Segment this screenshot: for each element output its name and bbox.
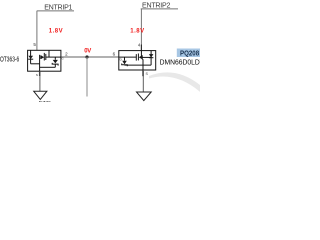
left box bottom pin stub [39, 71, 41, 76]
zener vertical bottom [54, 64, 56, 67]
zener bar [122, 64, 128, 67]
wire to left ground [39, 71, 41, 91]
drain vertical [140, 51, 142, 58]
gate wire inside [46, 56, 61, 58]
ground left [34, 91, 47, 99]
transistor Q2 right (PQ208 DMN66D0LDW) [119, 51, 156, 70]
zener vertical bottom [124, 64, 126, 66]
junction dot [85, 55, 88, 58]
zener triangle right box [122, 61, 127, 65]
body rect [119, 51, 156, 70]
svg-text:ENTRIP2: ENTRIP2 [142, 2, 170, 10]
body diode bar [28, 58, 33, 60]
arrow base to source stub [141, 58, 144, 60]
svg-text:DZ70: DZ70 [39, 101, 51, 102]
svg-text:1.8V: 1.8V [130, 29, 144, 35]
svg-text:1.8V: 1.8V [49, 29, 63, 35]
rail zener to body diode [125, 64, 152, 66]
main wire between boxes [61, 56, 119, 58]
body diode vertical [150, 51, 152, 65]
body rect [28, 50, 61, 71]
wire ENTRIP1 vertical [36, 11, 38, 50]
wire ENTRIP2 vertical [140, 9, 142, 51]
gate wire inside [119, 56, 137, 58]
ground right [137, 92, 152, 101]
source vertical [142, 59, 144, 70]
drain to body diode wire [141, 56, 151, 58]
gate bar [135, 54, 137, 61]
watermark swoosh [149, 72, 203, 94]
source vertical [39, 55, 41, 71]
wire ENTRIP2 horizontal [141, 8, 178, 10]
zener vertical top [54, 57, 56, 60]
right box bottom pin stub [142, 70, 144, 76]
zener triangle left box [53, 60, 58, 64]
svg-text:G: G [62, 57, 64, 61]
body diode triangle right box [149, 54, 154, 57]
svg-text:SOT363-6: SOT363-6 [0, 57, 20, 64]
zener vertical top [124, 57, 126, 61]
body diode vertical [30, 50, 32, 64]
wire ENTRIP1 horizontal [37, 10, 74, 12]
svg-text:0V: 0V [84, 49, 91, 55]
arrow base bar [141, 55, 143, 59]
wire down from junction [86, 57, 88, 97]
svg-text:DMN66D0LDW: DMN66D0LDW [160, 59, 200, 66]
zener bar [52, 63, 58, 66]
right box top pin stub [140, 45, 142, 51]
channel bar [137, 54, 139, 61]
svg-text:5: 5 [33, 42, 36, 47]
svg-text:s: s [36, 73, 38, 77]
drain stub to top edge [48, 50, 50, 57]
wire to right ground [142, 70, 144, 92]
source arrow triangle right box [139, 55, 143, 59]
svg-text:ENTRIP1: ENTRIP1 [44, 4, 72, 12]
channel bar [43, 53, 45, 61]
rail body diode to source [31, 63, 40, 65]
source arrow triangle left box [41, 55, 44, 59]
svg-text:PQ208: PQ208 [180, 50, 199, 57]
body diode triangle left box [28, 56, 33, 59]
reference designator PQ208 highlighted [177, 49, 201, 58]
gate bar [45, 54, 47, 60]
transistor Q left (SOT363-6) [28, 50, 61, 71]
arrow base bar [40, 55, 42, 59]
body diode bar [149, 57, 154, 59]
rail source to zener [40, 66, 56, 68]
